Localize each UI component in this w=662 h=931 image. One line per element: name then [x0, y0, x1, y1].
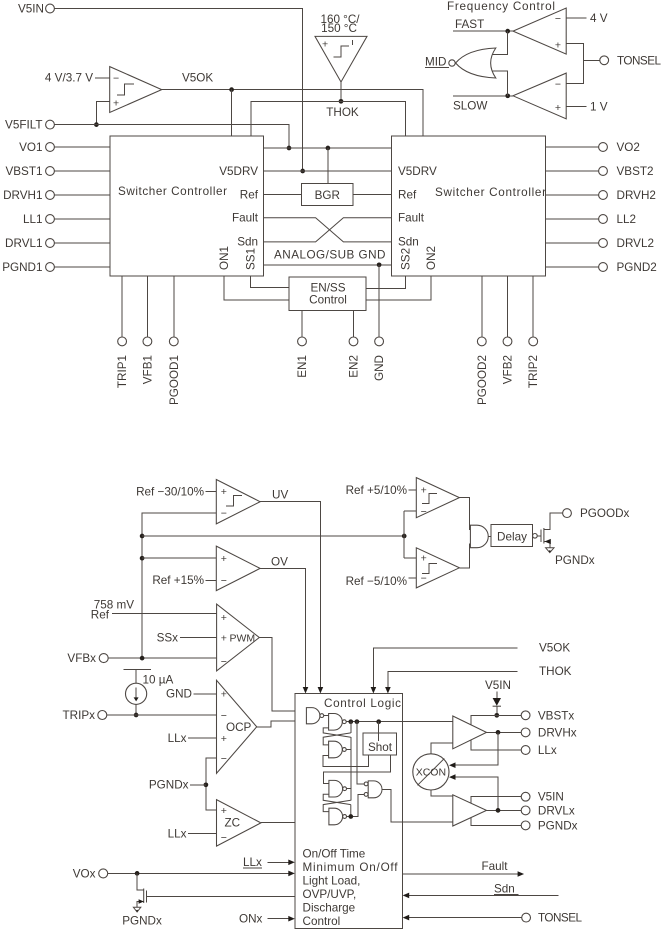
comparator UV [216, 480, 260, 524]
svg-text:+: + [221, 688, 227, 700]
pin DRVL1 [5, 237, 110, 250]
pin LL2 [546, 213, 636, 226]
comparator FAST (4V) [513, 8, 566, 54]
wire V5IN net [54, 9, 302, 169]
comparator ZC [217, 800, 261, 847]
junction V5IN-V5DRV [300, 169, 305, 174]
svg-text:V5OK: V5OK [182, 72, 213, 85]
comparator V5OK (4V/3.7V UVLO) [110, 67, 162, 113]
svg-text:+: + [221, 553, 227, 565]
pin VFB2 [502, 276, 515, 384]
svg-text:XCON: XCON [416, 767, 446, 779]
wire UV minus to VFBx node [142, 513, 216, 658]
wire V5IN rail low [471, 797, 521, 804]
label LLx input [243, 856, 295, 869]
svg-text:ONx: ONx [239, 913, 263, 926]
svg-text:150 °C: 150 °C [321, 22, 357, 35]
pin DRVHx [521, 726, 577, 739]
svg-text:Control Logic: Control Logic [324, 697, 401, 710]
svg-text:Ref +15%: Ref +15% [152, 574, 204, 587]
svg-text:Sdn: Sdn [237, 236, 258, 249]
wire V5DRV link [263, 170, 391, 172]
transistor Q1 PGOOD open drain [541, 513, 563, 547]
pin VFB1 [141, 276, 154, 384]
gate G1 nand pwm/ocp [306, 708, 328, 724]
junction PGNDx [204, 782, 209, 787]
svg-text:LLx: LLx [243, 856, 262, 869]
diode D1 bootstrap [493, 692, 501, 716]
wire comparator plus input from V5FILT [96, 102, 109, 125]
arrow into XCON lower [449, 774, 456, 780]
svg-text:Switcher Controller: Switcher Controller [435, 186, 546, 199]
junction SLOW [505, 93, 510, 98]
comparator PG -5/10% [416, 548, 459, 588]
svg-text:SS2: SS2 [400, 248, 413, 270]
svg-text:OV: OV [271, 556, 288, 569]
svg-text:V5IN: V5IN [18, 3, 44, 16]
ground PGNDx discharge [122, 907, 162, 927]
wire UV output [260, 502, 320, 688]
junction G5 v1 [348, 814, 353, 819]
gate G6 nor drvl [364, 781, 382, 798]
svg-text:GND: GND [166, 688, 192, 701]
label 758 mV Ref [91, 599, 217, 622]
label LLx zc [168, 827, 217, 840]
svg-text:V5IN: V5IN [538, 791, 564, 804]
pin VO2 [546, 141, 640, 154]
svg-text:−: − [113, 73, 119, 85]
ground PGNDx pg [546, 548, 595, 567]
pin DRVLx [521, 804, 575, 817]
block U1 switcher controller left [110, 136, 263, 276]
svg-text:PGOOD2: PGOOD2 [476, 355, 489, 405]
wire comparator minus input [95, 77, 110, 79]
wire v2 to G6 [357, 722, 364, 784]
wire OV output [260, 568, 305, 687]
comparator OV [216, 546, 260, 591]
current source I1 10uA [123, 669, 151, 713]
svg-text:VBST2: VBST2 [617, 165, 654, 178]
label Ref -5/10% [346, 575, 417, 588]
pin V5FILT [5, 119, 54, 132]
junction OV plus [140, 556, 145, 561]
junction FAST [505, 29, 510, 34]
driver A1 high side [453, 716, 487, 749]
junction V5FILT plus [94, 122, 99, 127]
gate NOR mid-detect [449, 48, 496, 78]
wire ON2 to EN/SS [366, 276, 431, 300]
svg-text:TONSEL: TONSEL [538, 912, 582, 925]
wire LLx rail [471, 740, 521, 750]
wire Sdn input [403, 882, 559, 898]
wire main Q line [346, 721, 453, 723]
svg-text:V5IN: V5IN [485, 679, 511, 692]
svg-text:ON2: ON2 [425, 246, 438, 270]
svg-text:PGOOD1: PGOOD1 [168, 355, 181, 405]
wire Fault output [402, 860, 524, 877]
svg-text:BGR: BGR [315, 189, 340, 202]
bubble delay output [533, 534, 541, 539]
pin TONSEL [584, 54, 662, 67]
svg-text:LL2: LL2 [617, 213, 637, 226]
pin VFBx [67, 652, 216, 665]
svg-text:DRVLx: DRVLx [538, 804, 575, 817]
pin TONSEL bottom [522, 912, 583, 925]
wire DRVLx feedback to XCON [455, 777, 498, 810]
svg-text:PGNDx: PGNDx [122, 915, 162, 928]
wire AND to delay [488, 535, 491, 537]
wire DRVHx [487, 731, 522, 733]
svg-text:Fault: Fault [232, 212, 259, 225]
wire SLOW net [453, 96, 513, 113]
gate G3 latch1 lower [329, 741, 351, 758]
gate AND pgood [470, 525, 488, 548]
pin GND [373, 265, 386, 381]
comparator OCP [217, 680, 257, 773]
comparator PWM [217, 604, 260, 671]
svg-text:ANALOG/SUB GND: ANALOG/SUB GND [274, 249, 386, 262]
wire PGNDx bracket [206, 758, 217, 810]
svg-text:Fault: Fault [482, 860, 509, 873]
svg-text:VO2: VO2 [617, 141, 640, 154]
svg-text:−: − [555, 13, 561, 25]
pin DRVH2 [546, 189, 656, 202]
wire DRVLx [487, 809, 522, 811]
svg-text:LLx: LLx [168, 732, 187, 745]
wire ZC output [261, 822, 329, 824]
label PGNDx [149, 779, 206, 792]
junction PG sense [402, 534, 407, 539]
wire VBSTx rail [471, 715, 521, 725]
svg-text:Shot: Shot [368, 741, 393, 754]
pin LL1 [23, 213, 110, 226]
svg-text:+: + [421, 485, 427, 497]
svg-text:Ref: Ref [398, 188, 417, 201]
label SSx [157, 631, 217, 644]
block control logic / on-off time [295, 694, 403, 929]
wire internal node line1 [263, 147, 391, 149]
svg-text:−: − [555, 78, 561, 90]
svg-text:+: + [221, 805, 227, 817]
pin TRIP1 [116, 276, 129, 388]
wire NOR input from SLOW [492, 71, 508, 96]
svg-text:+: + [221, 733, 227, 745]
junction V5FILT node line1 [287, 146, 292, 151]
svg-text:−: − [221, 575, 227, 587]
svg-text:PGND1: PGND1 [2, 261, 42, 274]
wire latch1 cross couple [323, 722, 351, 801]
svg-text:−: − [421, 506, 427, 518]
wire Fault-Sdn crossover [263, 218, 391, 242]
svg-text:PGOODx: PGOODx [580, 507, 630, 520]
svg-text:LLx: LLx [538, 744, 557, 757]
wire DRVHx feedback to XCON [455, 732, 498, 765]
wire XCON to driver A1 [431, 743, 453, 754]
svg-text:Control: Control [303, 915, 341, 928]
svg-text:+: + [221, 486, 227, 498]
pin DRVL2 [546, 237, 654, 250]
svg-text:MID: MID [425, 56, 446, 69]
svg-text:OCP: OCP [226, 721, 252, 734]
comparator PG +5/10% [416, 478, 459, 518]
wire TONSEL window [566, 44, 584, 84]
pin VBST2 [546, 165, 654, 178]
svg-text:−: − [221, 656, 227, 668]
transistor Q2 discharge [137, 873, 295, 907]
svg-text:Control: Control [309, 294, 347, 307]
pin TRIP2 [527, 276, 540, 388]
svg-text:VOx: VOx [73, 867, 96, 880]
svg-text:SS1: SS1 [245, 248, 258, 270]
svg-text:4 V: 4 V [590, 12, 608, 25]
junction VFBx sense [140, 534, 145, 539]
pin TRIPx [63, 709, 217, 722]
svg-text:ON1: ON1 [218, 246, 231, 270]
arrow OV into control logic [303, 687, 309, 694]
wire shot input [378, 722, 380, 742]
svg-text:EN/SS: EN/SS [310, 281, 345, 294]
svg-text:PGNDx: PGNDx [555, 554, 595, 567]
gate G4 latch2 upper [329, 780, 351, 797]
label ONx input [239, 913, 295, 926]
pin VBSTx [521, 709, 574, 722]
svg-text:Switcher Controller: Switcher Controller [118, 185, 227, 198]
pin PGOOD1 [168, 276, 181, 405]
label on/off time block [303, 848, 399, 929]
label MID [425, 56, 449, 69]
wire Ref link right [353, 194, 392, 196]
svg-text:DRVH1: DRVH1 [3, 189, 42, 202]
svg-text:10 µA: 10 µA [143, 674, 174, 687]
svg-text:−: − [221, 832, 227, 844]
svg-text:VFB1: VFB1 [141, 355, 154, 384]
pin PGOODx [563, 507, 630, 520]
svg-text:+: + [421, 553, 427, 565]
label Ref +5/10% [346, 484, 417, 497]
wire BGR feed [327, 148, 329, 184]
junction DRVHx [496, 730, 501, 735]
label 1V [566, 101, 608, 114]
svg-text:Ref: Ref [91, 609, 110, 622]
junction VOx discharge [135, 871, 140, 876]
wire NOR input from FAST [492, 31, 508, 54]
pin PGNDx low [521, 819, 577, 832]
pin DRVH1 [3, 189, 110, 202]
svg-text:DRVH2: DRVH2 [617, 189, 656, 202]
svg-text:On/Off Time: On/Off Time [303, 848, 366, 861]
svg-text:PGNDx: PGNDx [538, 819, 578, 832]
label LLx ocp [168, 732, 217, 745]
wire G6 output to driver2 [382, 789, 452, 822]
svg-text:THOK: THOK [326, 106, 359, 119]
pin V5IN [18, 3, 54, 16]
pin EN1 [296, 311, 309, 378]
label Ref +15% [152, 574, 216, 587]
wire VOx into box [108, 871, 295, 877]
svg-text:+: + [322, 39, 328, 51]
wire thermal output [340, 82, 342, 101]
svg-text:ZC: ZC [225, 817, 241, 830]
junction V5OK left branch [229, 87, 234, 92]
wire V5FILT net [54, 125, 289, 146]
svg-text:LLx: LLx [168, 827, 187, 840]
pin EN2 [348, 311, 361, 378]
svg-text:−: − [221, 753, 227, 765]
svg-text:+: + [221, 612, 227, 624]
wire PG comp outputs [459, 498, 470, 568]
svg-text:Light Load,: Light Load, [303, 875, 361, 888]
label 160C/150C [320, 13, 360, 35]
driver A2 low side [453, 795, 487, 826]
junction THOK [339, 99, 344, 104]
junction Q-v2 [355, 719, 360, 724]
arrow into XCON upper [449, 762, 456, 768]
junction Q-v1 [348, 719, 353, 724]
svg-text:DRVL1: DRVL1 [5, 237, 42, 250]
pin PGOOD2 [476, 276, 489, 405]
wire OCP output [257, 721, 307, 727]
svg-text:Ref −5/10%: Ref −5/10% [346, 575, 407, 588]
svg-text:V5DRV: V5DRV [219, 165, 258, 178]
svg-text:Delay: Delay [497, 531, 527, 544]
pin PGND1 [2, 261, 110, 274]
wire PGNDx rail [471, 818, 521, 826]
pin LLx [521, 744, 557, 757]
svg-text:LL1: LL1 [23, 213, 43, 226]
svg-text:+: + [555, 102, 561, 114]
wire SS2 to EN/SS [366, 276, 405, 289]
svg-text:THOK: THOK [539, 665, 572, 678]
wire XCON to driver A2 [431, 790, 453, 796]
gate G5 latch2 lower [329, 808, 347, 825]
block Delay [491, 525, 532, 547]
svg-text:4 V/3.7 V: 4 V/3.7 V [45, 72, 93, 85]
junction VBSTx [494, 713, 499, 718]
svg-text:PGNDx: PGNDx [149, 779, 189, 792]
svg-text:VFB2: VFB2 [502, 355, 515, 384]
svg-text:TRIP2: TRIP2 [527, 355, 540, 388]
wire PWM output [259, 638, 306, 712]
wire ON1 to EN/SS [224, 276, 289, 300]
svg-text:VBST1: VBST1 [5, 165, 42, 178]
gate G2 latch1 upper [329, 714, 347, 731]
arrow V5OK into box [371, 687, 377, 694]
svg-text:SSx: SSx [157, 631, 179, 644]
wire shot out left to G3 [323, 755, 368, 766]
svg-text:+: + [221, 632, 227, 644]
svg-text:VBSTx: VBSTx [538, 709, 575, 722]
block EN/SS control [289, 277, 366, 311]
svg-text:TONSEL: TONSEL [617, 54, 661, 67]
svg-text:−: − [421, 573, 427, 585]
label Ref -30/10% [136, 485, 216, 498]
wire VFBx sense line [142, 535, 404, 537]
wire Ref link left [263, 194, 301, 196]
svg-text:Minimum On/Off: Minimum On/Off [303, 861, 399, 874]
svg-text:SLOW: SLOW [453, 100, 487, 113]
svg-text:OVP/UVP,: OVP/UVP, [303, 888, 357, 901]
svg-text:Fault: Fault [398, 212, 425, 225]
svg-text:TRIPx: TRIPx [63, 709, 96, 722]
svg-text:DRVL2: DRVL2 [617, 237, 654, 250]
wire G5 output to G6 [347, 794, 365, 816]
svg-text:GND: GND [373, 355, 386, 381]
svg-text:UV: UV [272, 489, 288, 502]
junction BGR feed [326, 146, 331, 151]
XCON crossover control [413, 754, 449, 790]
pin V5IN low [521, 791, 564, 804]
BGR U3 [302, 184, 353, 206]
svg-text:Discharge: Discharge [303, 902, 356, 915]
svg-text:1 V: 1 V [590, 101, 608, 114]
label GND [166, 688, 216, 701]
svg-text:V5OK: V5OK [539, 642, 570, 655]
junction VFBx [140, 656, 145, 661]
svg-text:V5FILT: V5FILT [5, 119, 42, 132]
junction GND tap [377, 262, 382, 267]
wire shot out right to G4/G6 [323, 755, 390, 783]
arrow UV into control logic [318, 687, 324, 694]
wire V5OK into left controller [231, 90, 233, 136]
wire ANALOG/SUB GND link [263, 264, 391, 266]
svg-text:+: + [555, 40, 561, 52]
block Shot one-shot [363, 733, 396, 755]
svg-text:Sdn: Sdn [494, 882, 515, 895]
svg-text:Ref: Ref [240, 188, 259, 201]
svg-text:V5DRV: V5DRV [398, 165, 437, 178]
wire THOK net [251, 101, 406, 137]
svg-text:DRVHx: DRVHx [538, 726, 577, 739]
svg-text:FAST: FAST [455, 18, 484, 31]
svg-text:VO1: VO1 [19, 141, 42, 154]
svg-text:VFBx: VFBx [67, 652, 96, 665]
svg-text:EN2: EN2 [348, 355, 361, 378]
comparator SLOW (1V) [513, 73, 566, 119]
wire THOK bottom [388, 665, 572, 687]
svg-text:EN1: EN1 [296, 355, 309, 378]
svg-text:PGND2: PGND2 [617, 261, 657, 274]
svg-text:+: + [113, 98, 119, 110]
wire latch2 cross couple [323, 794, 351, 816]
svg-text:Frequency Control: Frequency Control [447, 0, 555, 13]
wire V5OK bottom [373, 642, 570, 688]
wire V5OK net [162, 90, 424, 136]
wire OV plus [142, 557, 216, 559]
junction Q-shot [376, 719, 381, 724]
wire PG sense branches [404, 511, 416, 558]
svg-text:Ref −30/10%: Ref −30/10% [136, 485, 204, 498]
pin VBST1 [5, 165, 110, 178]
svg-text:−: − [221, 508, 227, 520]
svg-text:PWM: PWM [230, 632, 256, 644]
comparator thermal 160C/150C [315, 36, 367, 82]
junction TRIPx [134, 713, 139, 718]
svg-text:TRIP1: TRIP1 [116, 355, 129, 388]
block U2 switcher controller right [392, 136, 546, 276]
label 4V [566, 12, 608, 25]
svg-text:Ref +5/10%: Ref +5/10% [346, 484, 407, 497]
wire TONSEL input [403, 915, 522, 921]
pin VOx [73, 867, 108, 880]
svg-text:Sdn: Sdn [398, 236, 419, 249]
pin PGND2 [546, 261, 657, 274]
wire SS1 to EN/SS [251, 276, 290, 287]
arrow THOK into box [385, 687, 391, 694]
wire FAST net [453, 18, 513, 31]
pin VO1 [19, 141, 110, 154]
junction DRVLx [496, 808, 501, 813]
